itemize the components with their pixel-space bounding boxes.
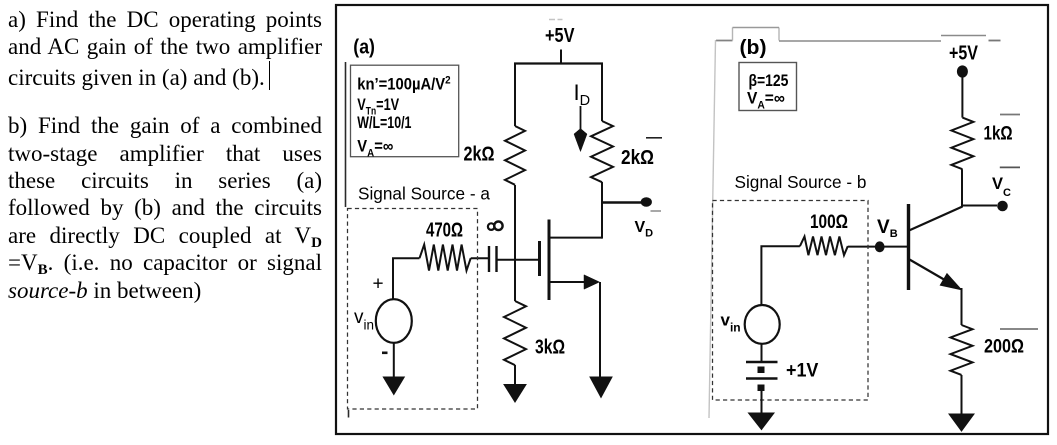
wire: vin to resistor [393, 258, 420, 299]
top rail wire [514, 62, 603, 64]
stray tick below dashed box a [348, 410, 350, 418]
+5V node dot (b) [957, 65, 968, 77]
label 3kohm [535, 336, 565, 358]
label 2kohm left [464, 143, 495, 165]
svg-text:3kΩ: 3kΩ [535, 336, 565, 358]
ground (emitter) [949, 414, 974, 431]
svg-text:(a): (a) [353, 37, 375, 59]
signal source a title [358, 183, 490, 203]
wire: +5V to R4 [961, 72, 963, 118]
wire: R5 to ground [961, 375, 963, 415]
gate wire [497, 259, 539, 261]
label VB [877, 217, 898, 240]
resistor 3k [504, 301, 526, 365]
resistor 200 [951, 325, 973, 375]
wire: battery to ground [761, 391, 763, 414]
svg-text:+1V: +1V [786, 359, 819, 381]
signal source b title [735, 172, 867, 192]
label VD with overbar [635, 211, 662, 240]
minus sign [382, 352, 388, 355]
svg-text:(b): (b) [740, 37, 767, 59]
svg-text:VA=∞: VA=∞ [747, 90, 785, 111]
wire: R3 to ground [514, 365, 516, 385]
resistor 2k (gate pull-up) [505, 126, 525, 185]
ground (vin a) [383, 377, 404, 395]
wire: resistor to capacitor [471, 257, 489, 259]
parameter box U-a [351, 65, 459, 159]
svg-text:+: + [373, 274, 384, 295]
svg-text:100Ω: 100Ω [810, 210, 848, 232]
wire: rail to R2 [601, 63, 603, 121]
wire: vin to ground [393, 342, 395, 378]
label 2kohm right with overbar [621, 138, 662, 168]
+5V stub wire [560, 50, 562, 65]
svg-text:1kΩ: 1kΩ [984, 122, 1013, 144]
stray vertical line left of parameter box [345, 62, 347, 207]
bjt collector lead [909, 207, 963, 231]
source vin circle (a) [376, 299, 412, 343]
source vin circle (b) [745, 305, 780, 344]
battery +1V plates [746, 362, 778, 391]
+5V label (b) [949, 42, 978, 64]
ground (below 3k) [504, 385, 526, 403]
svg-text:β=125: β=125 [749, 72, 789, 90]
capacitor infinity label [488, 222, 503, 231]
label +1V [786, 359, 819, 381]
svg-text:vin: vin [354, 307, 374, 333]
problem statement text [8, 6, 322, 304]
mosfet source lead with arrow [548, 275, 600, 289]
dashed box signal source b [713, 201, 869, 401]
ground (vin b) [749, 413, 775, 430]
label (a) [353, 37, 375, 59]
resistor 470 [420, 245, 471, 271]
mosfet drain lead [548, 237, 602, 239]
plus sign [373, 274, 384, 295]
wire: R4 to collector corner [961, 169, 963, 207]
mosfet M1 channel bar [548, 220, 551, 301]
svg-text:vin: vin [721, 310, 741, 334]
label 1kohm with overbar [984, 115, 1021, 144]
svg-text:Signal Source - a: Signal Source - a [358, 183, 490, 203]
resistor 2k (drain) [591, 121, 613, 182]
label vin (a) [354, 307, 374, 333]
svg-text:+5V: +5V [949, 42, 978, 64]
dashed box signal source a [348, 209, 478, 410]
mosfet M1 gate bar [538, 241, 541, 276]
svg-text:VC: VC [992, 175, 1011, 199]
wire: vin-b to battery [761, 344, 763, 361]
stray grey vertical line left of (b) [709, 40, 716, 418]
wire: R1 to gate node to R3 [514, 185, 516, 301]
label 200ohm with overbar [984, 329, 1038, 357]
svg-text:+5V: +5V [545, 23, 575, 46]
svg-text:kn’=100µA/V2: kn’=100µA/V2 [357, 75, 451, 94]
+5V label (a) [545, 20, 575, 47]
stray grey polyline top of (b) [716, 28, 1001, 42]
current label ID [574, 80, 591, 109]
wire: rail to R1 [514, 63, 516, 126]
resistor 100 [800, 237, 848, 256]
outer figure frame [336, 5, 1048, 434]
node VB dot [875, 241, 885, 252]
wire: VC tap [962, 205, 997, 207]
node VC dot [997, 201, 1008, 212]
wire: VD tap [602, 201, 641, 203]
node VD dot [641, 197, 652, 207]
label VC with overbar [992, 167, 1020, 199]
svg-text:VD: VD [635, 219, 654, 240]
wire: vin-b to resistor [761, 246, 800, 304]
svg-text:2kΩ: 2kΩ [621, 146, 654, 168]
label (b) [740, 37, 767, 59]
svg-text:ID: ID [574, 80, 591, 109]
svg-text:470Ω: 470Ω [426, 218, 463, 241]
ground (source) [590, 377, 612, 398]
label vin (b) [721, 310, 741, 334]
wire: source corner down [599, 282, 601, 378]
svg-text:2kΩ: 2kΩ [464, 143, 495, 165]
label 470ohm [426, 218, 463, 241]
wire: R2 to drain corner [601, 182, 603, 239]
current arrow ID [574, 106, 587, 152]
svg-text:Signal Source - b: Signal Source - b [735, 172, 867, 192]
resistor 1k [951, 118, 973, 170]
label 100ohm [810, 210, 848, 232]
base wire to bar [848, 246, 907, 248]
wire: emitter corner down [961, 288, 963, 325]
bjt emitter lead with arrow [910, 260, 962, 290]
svg-text:200Ω: 200Ω [984, 335, 1024, 357]
svg-text:VB: VB [877, 217, 898, 240]
capacitor C-inf plates [489, 246, 497, 272]
svg-text:W/L=10/1: W/L=10/1 [357, 114, 411, 132]
parameter box Q-b [739, 63, 797, 112]
bjt Q1 base bar [907, 204, 910, 290]
